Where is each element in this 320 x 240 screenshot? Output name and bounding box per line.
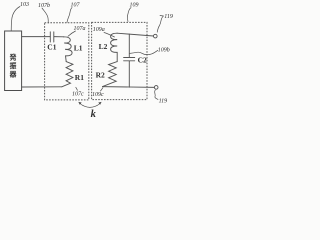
inductor L1 <box>63 37 72 62</box>
leader for 107b <box>42 8 48 23</box>
leader for 103 <box>11 7 20 31</box>
svg-text:119: 119 <box>159 99 168 105</box>
leader for 107 <box>67 8 72 23</box>
resonator box 107 (dashed) <box>45 23 89 100</box>
wire C1 to L1 <box>54 36 64 38</box>
svg-text:R2: R2 <box>96 70 105 79</box>
svg-text:107b: 107b <box>38 3 50 9</box>
svg-text:109c: 109c <box>92 92 104 98</box>
capacitor C2 <box>124 58 135 61</box>
leader for 109b <box>130 50 158 54</box>
leader for 109c <box>101 88 104 91</box>
terminal circle bottom (119) <box>154 86 158 90</box>
coupling arrow k <box>79 102 101 107</box>
svg-text:L2: L2 <box>99 42 108 51</box>
leader for 109 <box>127 8 131 22</box>
resistor R2 <box>103 62 118 87</box>
bottom wire of left loop <box>22 86 62 88</box>
svg-text:器: 器 <box>9 70 17 79</box>
svg-text:L1: L1 <box>74 44 83 53</box>
inductor L2 <box>111 33 118 61</box>
capacitor C2 branch top wire <box>128 34 130 57</box>
terminal circle top (119) <box>154 34 158 38</box>
leader for 119 top <box>157 16 163 33</box>
svg-text:振: 振 <box>10 61 17 70</box>
leader for 109a <box>104 33 115 38</box>
svg-text:119: 119 <box>164 14 173 20</box>
power source box 103 <box>5 31 22 91</box>
resistor R1 <box>62 62 73 87</box>
bottom wire of right loop to terminal <box>103 86 155 89</box>
svg-text:発: 発 <box>9 53 17 62</box>
leader for 119 bottom <box>155 90 158 100</box>
resonator box 109 (dashed) <box>92 22 147 99</box>
svg-text:k: k <box>91 109 97 120</box>
svg-text:109a: 109a <box>93 27 105 33</box>
top wire from source to C1 <box>22 36 51 38</box>
svg-text:107c: 107c <box>72 91 84 97</box>
svg-text:109b: 109b <box>158 48 170 54</box>
svg-text:C2: C2 <box>138 56 147 65</box>
svg-text:R1: R1 <box>75 73 84 82</box>
leader for 107c <box>76 87 78 90</box>
svg-text:C1: C1 <box>47 42 56 51</box>
top wire of right loop to terminal <box>117 33 153 36</box>
capacitor C1 <box>50 32 54 42</box>
leader for 107a <box>68 31 76 36</box>
svg-text:103: 103 <box>20 2 29 8</box>
